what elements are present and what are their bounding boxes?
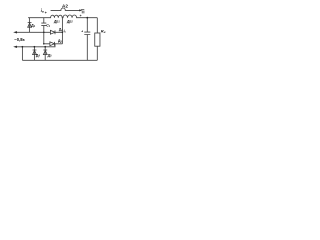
wire diode D1 branch bbox=[28, 18, 30, 33]
wire left riser bbox=[21, 47, 23, 61]
wire AC rail 2 bbox=[16, 44, 55, 47]
node dot C2 top bbox=[86, 17, 88, 19]
svg-text:+: + bbox=[80, 14, 82, 18]
wire mid rail H3 bbox=[44, 43, 62, 45]
input arrowhead top bbox=[13, 31, 17, 33]
node dot C1 H2 crossing bbox=[43, 32, 45, 34]
capacitor C1 bbox=[41, 18, 46, 44]
node dot left riser bbox=[22, 46, 24, 48]
diode D1 bbox=[28, 23, 32, 28]
svg-text:iс: iс bbox=[64, 29, 67, 33]
svg-text:А2: А2 bbox=[62, 3, 68, 8]
svg-text:Rн: Rн bbox=[101, 29, 106, 35]
svg-text:Д4: Д4 bbox=[36, 53, 41, 57]
svg-text:Др1: Др1 bbox=[53, 19, 60, 23]
svg-text:Др2: Др2 bbox=[66, 19, 73, 23]
wire bottom rail H4 bbox=[22, 59, 97, 61]
input arrowhead bottom bbox=[13, 46, 17, 48]
wire load bottom lead bbox=[96, 46, 98, 60]
svg-text:~0,8в: ~0,8в bbox=[14, 37, 24, 42]
svg-text:С1: С1 bbox=[46, 23, 50, 27]
current arrow line iв bbox=[51, 8, 80, 10]
node dot D5 top bbox=[44, 46, 46, 48]
diode D5 bbox=[43, 50, 47, 55]
diode D2 bbox=[50, 30, 55, 34]
svg-text:iв: iв bbox=[41, 8, 44, 14]
wire diode D5 branch bbox=[44, 47, 46, 61]
svg-text:Д3: Д3 bbox=[58, 39, 62, 43]
node dot C1 bottom bbox=[43, 43, 45, 45]
arrowhead current iв bbox=[79, 9, 82, 11]
wire diode D4 branch bbox=[33, 47, 35, 61]
wire top rail H1 with chokes bbox=[28, 15, 97, 18]
label Uв marks bbox=[81, 9, 84, 13]
diode D3 bbox=[50, 42, 55, 46]
svg-text:+: + bbox=[45, 11, 48, 15]
svg-text:Д1: Д1 bbox=[31, 24, 35, 28]
resistor Rн box bbox=[95, 33, 100, 46]
wire plus bus bbox=[61, 18, 63, 44]
diode D4 bbox=[33, 50, 37, 55]
node dot D4 top bbox=[34, 46, 36, 48]
node dot bus H2 bbox=[62, 32, 64, 34]
capacitor C2 bbox=[84, 18, 90, 61]
svg-text:+: + bbox=[81, 30, 83, 34]
wire load top lead bbox=[96, 18, 98, 33]
svg-text:Д5: Д5 bbox=[48, 53, 53, 57]
wire AC rail 1 H2 bbox=[16, 31, 62, 33]
